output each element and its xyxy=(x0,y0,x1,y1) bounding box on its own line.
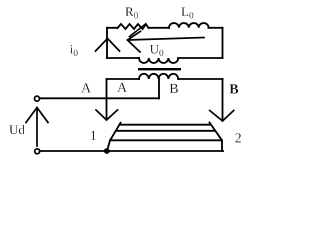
transformer T1 secondary winding xyxy=(139,74,178,79)
wire right edge of loop xyxy=(222,28,224,58)
resistor R0 xyxy=(118,24,149,29)
svg-text:A: A xyxy=(81,81,92,96)
svg-text:Ud: Ud xyxy=(9,122,25,137)
wire center tap B drop xyxy=(158,79,160,98)
svg-text:B: B xyxy=(169,82,178,97)
workpiece bottom line xyxy=(110,139,222,141)
voltage arrow Ud xyxy=(26,108,48,147)
wire top-left segment of R0-L0 loop xyxy=(107,27,118,29)
terminal lower left xyxy=(35,149,40,154)
workpiece top face line xyxy=(121,124,211,126)
svg-text:i0: i0 xyxy=(70,42,79,60)
workpiece middle line xyxy=(117,130,215,132)
inductor L0 xyxy=(169,23,209,28)
workpiece right slanted edge xyxy=(210,123,223,152)
wire bottom rail xyxy=(40,150,224,152)
terminal upper left xyxy=(35,96,40,101)
wire secondary left drop / electrode arrow A shaft xyxy=(106,79,108,119)
wire A from terminal to tap xyxy=(40,97,160,99)
workpiece left slanted edge xyxy=(107,123,121,151)
wire secondary left xyxy=(107,78,139,80)
svg-text:1: 1 xyxy=(90,129,97,144)
wire left edge of loop xyxy=(106,28,108,58)
svg-text:R0: R0 xyxy=(125,4,139,22)
junction dot at point 1 xyxy=(104,148,110,154)
wire bottom-left of loop xyxy=(107,57,139,59)
current arrow i0 xyxy=(96,39,120,52)
svg-text:A: A xyxy=(117,81,128,96)
svg-text:B: B xyxy=(229,82,238,97)
transformer T1 core xyxy=(138,68,181,70)
electrode arrow at tap A xyxy=(96,110,118,120)
svg-text:U0: U0 xyxy=(150,41,164,59)
wire between R0 and L0 xyxy=(149,27,170,29)
transformer T1 primary winding xyxy=(139,58,178,63)
wire top-right segment xyxy=(209,27,223,29)
svg-text:2: 2 xyxy=(235,132,242,147)
wire secondary right drop / electrode arrow B shaft xyxy=(222,79,224,119)
voltage arrow U0 xyxy=(128,31,205,52)
wire bottom-right of loop xyxy=(178,57,222,59)
wire secondary right xyxy=(178,78,222,80)
svg-text:L0: L0 xyxy=(181,4,194,22)
rheostat arrow of R0 xyxy=(130,24,146,37)
electrode arrow at tap B xyxy=(210,111,234,122)
